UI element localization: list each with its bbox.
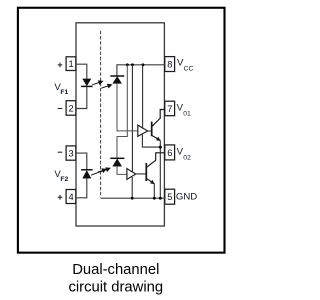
pin 1 box <box>66 57 76 71</box>
plus polarity mark pin 4 <box>58 195 63 200</box>
svg-text:6: 6 <box>167 148 172 158</box>
pin 4 box <box>66 190 76 204</box>
svg-text:circuit drawing: circuit drawing <box>69 280 164 296</box>
wire amp2 ground down to GND rail <box>131 177 133 198</box>
wire amp2 output to Q2 base <box>136 173 147 175</box>
wire VCC to amp1 (vertical) <box>142 65 144 128</box>
photodiode PD2 (channel 2) <box>110 158 124 166</box>
wire VCC to amp2 (vertical) <box>131 65 133 172</box>
wire VCC to PD2 cathode (jog) <box>117 65 127 158</box>
IC body outline U1 <box>76 23 164 226</box>
svg-text:GND: GND <box>176 192 197 203</box>
transistor Q1 <box>152 110 165 141</box>
svg-text:01: 01 <box>183 110 191 117</box>
junction dot VCC-amp1 branch <box>142 63 145 66</box>
wire pin3 to LED2 cathode <box>76 153 87 169</box>
svg-text:5: 5 <box>167 192 172 202</box>
minus polarity mark pin 2 <box>58 108 63 110</box>
isolation shield (dashed) <box>100 31 102 198</box>
label VO1 <box>177 102 191 117</box>
label VF2 <box>54 169 68 183</box>
LED D1 (channel 1, pointing down) <box>81 79 93 87</box>
svg-text:1: 1 <box>69 59 74 69</box>
wire Q1 emitter down to GND junction <box>159 140 161 198</box>
pin 8 box <box>165 57 175 72</box>
plus polarity mark pin 1 <box>58 63 63 68</box>
junction dot VCC-amp2 branch <box>131 63 134 66</box>
svg-text:7: 7 <box>167 104 172 114</box>
svg-text:2: 2 <box>69 103 74 113</box>
junction dot emitter1 at GND rail <box>159 197 162 200</box>
label VCC <box>177 58 194 73</box>
junction dot emitter1/amp1-gnd <box>159 146 162 149</box>
GND rail wire <box>101 197 165 199</box>
wire LED2 anode to pin4 <box>76 178 87 198</box>
wire amp1 output to Q1 base <box>148 130 152 132</box>
minus polarity mark pin 3 <box>58 151 63 153</box>
wire PD2 anode to amp2 input <box>117 166 127 174</box>
op-amp buffer A2 (channel 2) <box>127 169 136 180</box>
pin 5 box <box>165 189 175 204</box>
wire pin1 to LED1 anode <box>76 64 87 79</box>
junction dot emitter2 <box>153 197 156 200</box>
op-amp buffer A1 (channel 1) <box>138 125 148 136</box>
light arrows channel 1 <box>92 81 111 88</box>
wire Q2 emitter down to GND rail <box>153 184 155 199</box>
LED D2 (channel 2, pointing up) <box>81 170 93 178</box>
light arrows channel 2 <box>91 168 110 175</box>
svg-text:4: 4 <box>69 192 74 202</box>
wire PD1 anode to amp1 input <box>117 83 138 130</box>
svg-text:02: 02 <box>183 155 191 162</box>
pin 6 box <box>165 145 175 160</box>
svg-text:3: 3 <box>69 148 74 158</box>
label VF1 <box>54 82 68 96</box>
label VO2 <box>177 147 191 162</box>
transistor Q2 <box>146 153 165 184</box>
svg-text:F1: F1 <box>60 89 68 96</box>
pin 7 box <box>165 101 175 116</box>
border frame (decorative) <box>18 8 225 253</box>
svg-text:8: 8 <box>167 59 172 69</box>
pin 2 box <box>66 101 76 116</box>
wire LED1 cathode to pin2 <box>76 87 87 109</box>
junction dot VCC-PD2 branch <box>126 63 129 66</box>
wire amp1 ground to emitter node <box>142 134 160 147</box>
VCC rail wire <box>117 65 165 76</box>
svg-text:CC: CC <box>184 66 194 73</box>
svg-text:F2: F2 <box>60 176 68 183</box>
junction dot amp2-gnd <box>131 197 134 200</box>
svg-text:Dual-channel: Dual-channel <box>72 262 159 278</box>
pin 3 box <box>66 146 76 160</box>
photodiode PD1 (channel 1) <box>110 76 124 83</box>
